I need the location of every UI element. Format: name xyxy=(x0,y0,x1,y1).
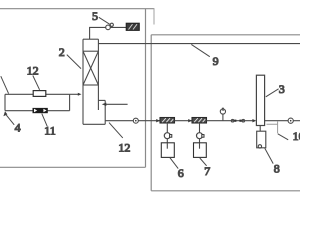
arrow into column 3 xyxy=(252,119,256,122)
svg-text:5: 5 xyxy=(92,9,98,23)
pump 11 on loop bottom (dark with arrows) xyxy=(33,108,48,113)
wire: pump 5 to fan box xyxy=(110,26,126,28)
pump P6 (circle with tab) under F1 xyxy=(164,123,172,143)
enclosure box 1 (left dashed-solid frame) xyxy=(0,9,154,168)
faint overflow bracket xyxy=(267,121,278,133)
label 11 xyxy=(42,114,56,138)
tank 6 xyxy=(161,143,174,158)
filter F1 (hatched box on line) xyxy=(156,118,174,124)
svg-text:3: 3 xyxy=(279,82,285,96)
svg-text:12: 12 xyxy=(27,64,39,78)
svg-text:10: 10 xyxy=(293,129,300,143)
wire: column top feed pipe xyxy=(90,27,106,39)
inline fitting pair 1 xyxy=(231,119,236,122)
label 5 xyxy=(92,9,110,25)
wire: main bottom process line xyxy=(105,120,133,122)
wire between filters xyxy=(175,120,193,122)
label 2 xyxy=(59,45,81,69)
pump P7 (circle with tab) under F2 xyxy=(197,123,205,143)
wire: column 3 right side to pump xyxy=(265,120,289,122)
wire to right edge xyxy=(293,120,300,122)
svg-text:8: 8 xyxy=(274,162,280,176)
fan/blower box (hatched) xyxy=(126,23,139,30)
valve 12 on loop top (open box) xyxy=(33,91,46,97)
filter F2 (hatched box on line) xyxy=(188,118,206,124)
tank 7 xyxy=(194,143,207,158)
enclosure box 9 (right frame) xyxy=(151,35,300,191)
label 10 xyxy=(278,129,305,143)
valve (circle with dot) after flask xyxy=(133,118,138,123)
svg-text:2: 2 xyxy=(59,45,65,59)
pump 5 (circle with small circle) xyxy=(106,23,114,30)
wire: inlet line with left arrow into flask xyxy=(102,103,128,106)
wire after F2 xyxy=(207,120,254,122)
svg-text:11: 11 xyxy=(44,123,56,137)
pump (circle with dot) right end xyxy=(288,118,293,123)
label 7 xyxy=(200,158,210,178)
wire: overhead gas line from column 2 to right edge xyxy=(98,43,300,45)
label 8 xyxy=(265,148,280,175)
svg-text:9: 9 xyxy=(213,54,219,68)
svg-text:6: 6 xyxy=(178,166,184,180)
leader (cut label) top-left xyxy=(1,76,9,93)
svg-text:12: 12 xyxy=(118,140,130,154)
label 12 (right, under flask) xyxy=(109,123,130,155)
label 9 xyxy=(191,44,218,68)
gauge on main line xyxy=(220,108,225,121)
vessel 8 (collector) xyxy=(257,131,266,148)
recirculation loop rectangle (heater circuit 4) xyxy=(5,93,82,111)
label 6 xyxy=(170,158,184,181)
stub of box 1 top-right corner xyxy=(153,9,155,25)
column 3 (vertical tube) xyxy=(256,75,264,125)
column 2 (packed tower) xyxy=(83,39,98,124)
svg-text:4: 4 xyxy=(15,120,21,134)
tank under column 2 (flask) xyxy=(83,100,105,124)
svg-text:7: 7 xyxy=(204,164,210,178)
label 12 (left) xyxy=(27,64,40,90)
label 3 xyxy=(266,82,285,97)
inline fitting pair 2 xyxy=(239,119,244,122)
wire: stem from column 3 to vessel 8 xyxy=(259,126,261,132)
label 4 with arrow to loop xyxy=(3,111,20,134)
